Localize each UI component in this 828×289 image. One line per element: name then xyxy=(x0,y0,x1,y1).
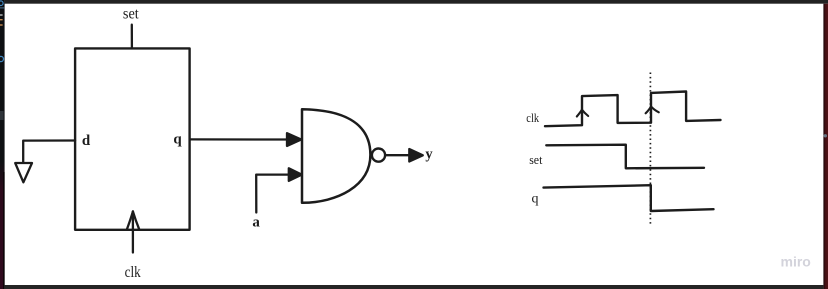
set waveform xyxy=(546,145,704,169)
svg-text:clk: clk xyxy=(526,110,539,125)
clk rising-edge arrow 2 xyxy=(646,106,659,113)
clk input wire xyxy=(132,211,134,252)
svg-text:y: y xyxy=(425,147,433,163)
output y arrowhead xyxy=(409,149,423,162)
svg-text:clk: clk xyxy=(125,264,141,281)
q output wire xyxy=(190,138,288,140)
svg-text:d: d xyxy=(82,133,91,149)
flip-flop U1 body xyxy=(75,48,190,229)
svg-text:q: q xyxy=(173,132,182,148)
clk rising-edge arrow 1 xyxy=(577,110,588,117)
output wire y xyxy=(385,154,410,156)
input a arrowhead xyxy=(289,168,302,181)
q waveform xyxy=(544,185,714,211)
inversion bubble xyxy=(372,149,385,162)
clk edge caret on U1 xyxy=(127,211,139,229)
d input wire xyxy=(23,141,75,164)
NAND gate U2 xyxy=(302,109,370,203)
clk waveform xyxy=(545,92,721,127)
q output arrowhead xyxy=(287,133,301,146)
svg-text:set: set xyxy=(123,6,139,23)
sampling instant dotted line xyxy=(649,73,651,225)
svg-text:miro: miro xyxy=(781,254,811,270)
svg-text:set: set xyxy=(529,152,543,167)
input a wire xyxy=(256,175,290,213)
set input wire xyxy=(131,25,133,49)
open arrowhead into d wire xyxy=(15,163,32,182)
svg-text:a: a xyxy=(252,214,260,230)
svg-text:q: q xyxy=(532,191,539,206)
